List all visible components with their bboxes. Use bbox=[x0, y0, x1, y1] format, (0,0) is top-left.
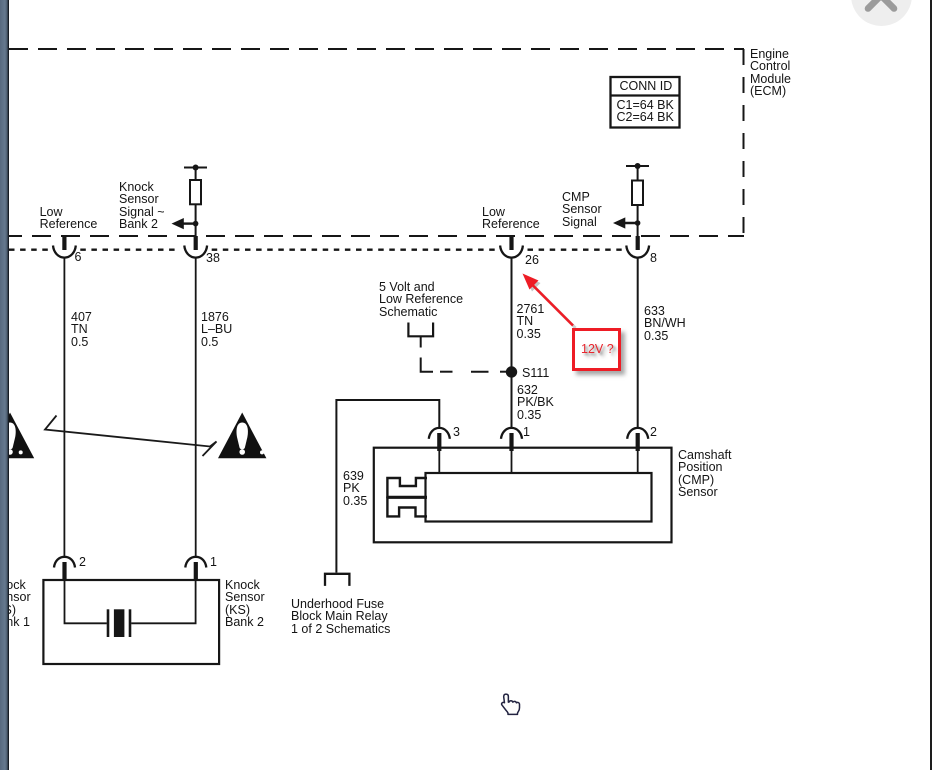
ECM pin 6 connector bbox=[53, 236, 76, 258]
CMP pin 3 connector bbox=[429, 428, 450, 473]
ECM pin 38 connector bbox=[184, 236, 207, 258]
label 2761 TN 0.35 bbox=[517, 303, 545, 340]
warning triangle right bbox=[218, 413, 266, 459]
ECM bottom dashed border bbox=[9, 235, 744, 237]
wire resistor to ECM pin 8 bbox=[637, 205, 639, 236]
label Camshaft Position (CMP) Sensor bbox=[678, 449, 732, 498]
CMP pin 2 connector bbox=[627, 428, 648, 473]
pin label 3 bbox=[453, 426, 460, 438]
pin label 1 (ks) bbox=[210, 556, 217, 568]
knock sensor box bbox=[43, 580, 219, 664]
pin label 2 (cmp) bbox=[650, 426, 657, 438]
label S111 bbox=[522, 367, 549, 379]
label 407 TN 0.5 bbox=[71, 311, 92, 348]
KS pin 1 connector bbox=[185, 557, 206, 582]
splice S111 bbox=[506, 366, 517, 377]
label Engine Control Module (ECM) bbox=[750, 48, 791, 97]
label C1=64 BK / C2=64 BK bbox=[617, 99, 674, 124]
wire 2761 TN bbox=[511, 258, 513, 428]
label 633 BN/WH 0.35 bbox=[644, 305, 686, 342]
CMP connector plug upper bbox=[387, 478, 427, 497]
label Low Reference (right) bbox=[482, 206, 540, 231]
red 12V annotation box bbox=[572, 328, 621, 371]
label CMP Sensor Signal bbox=[562, 191, 602, 228]
cmp signal arrow bbox=[613, 217, 640, 228]
ECM top dashed border bbox=[9, 48, 744, 50]
pin label 38 bbox=[206, 252, 220, 264]
resistor R-knock bbox=[190, 180, 201, 204]
wire resistor to ECM pin 38 bbox=[195, 204, 197, 236]
label Knock Sensor Signal ~ Bank 2 bbox=[119, 181, 165, 230]
resistor R-knock T-bar bbox=[184, 165, 207, 181]
label 639 PK 0.35 bbox=[343, 470, 367, 507]
warning triangle left bbox=[0, 413, 34, 459]
resistor R-cmp T-bar bbox=[626, 163, 649, 181]
harness dotted line bbox=[9, 248, 622, 250]
pin label 2 (ks) bbox=[79, 556, 86, 568]
label Underhood Fuse Block Main Relay bbox=[291, 598, 390, 635]
label Knock Sensor (KS) Bank 2 bbox=[225, 579, 265, 628]
KS pin 2 connector bbox=[54, 557, 75, 582]
label Knock Sensor (KS) Bank 1 (clipped) bbox=[0, 579, 31, 628]
left blue sidebar bbox=[0, 0, 9, 770]
wire 1876 L-BU bbox=[195, 258, 197, 557]
5V bracket stub bbox=[420, 336, 422, 347]
knock signal arrow bbox=[172, 218, 199, 229]
ECM pin 26 connector bbox=[500, 236, 523, 258]
interference zigzag bbox=[45, 416, 217, 457]
right border line bbox=[930, 0, 932, 770]
close X glyph bbox=[868, 0, 894, 9]
resistor R-cmp bbox=[632, 181, 643, 206]
close button bbox=[851, 0, 912, 26]
label 632 PK/BK 0.35 bbox=[517, 384, 554, 421]
dashed wire to S111 bbox=[421, 358, 506, 372]
CMP pin 1 connector bbox=[501, 428, 522, 473]
5V reference bracket bbox=[408, 323, 433, 337]
CMP sensor inner body bbox=[426, 473, 652, 522]
piezo element bbox=[108, 609, 130, 637]
pin label 6 bbox=[75, 251, 82, 263]
wire 407 TN bbox=[63, 258, 65, 557]
ECM right dashed border bbox=[743, 49, 745, 236]
wire 633 BN/WH bbox=[637, 258, 639, 428]
CONN ID box bbox=[611, 77, 680, 128]
red annotation arrow bbox=[523, 274, 576, 329]
pin label 1 (cmp) bbox=[523, 426, 530, 438]
knock sensor internal wires bbox=[65, 581, 196, 623]
pin label 8 bbox=[650, 252, 657, 264]
CMP connector plug lower bbox=[387, 498, 427, 517]
wire 639 PK run bbox=[336, 400, 439, 573]
CMP sensor outer box bbox=[374, 448, 672, 543]
label 1876 L-BU 0.5 bbox=[201, 311, 232, 348]
label Low Reference (left) bbox=[40, 206, 98, 231]
cursor hand pointer bbox=[502, 694, 520, 714]
label 5 Volt and Low Reference Schematic bbox=[379, 281, 463, 318]
ECM pin 8 connector bbox=[626, 236, 649, 258]
label CONN ID bbox=[620, 80, 673, 92]
pin label 26 bbox=[525, 254, 539, 266]
underhood fuse block terminal bbox=[325, 574, 349, 586]
12V ? text bbox=[581, 343, 614, 355]
